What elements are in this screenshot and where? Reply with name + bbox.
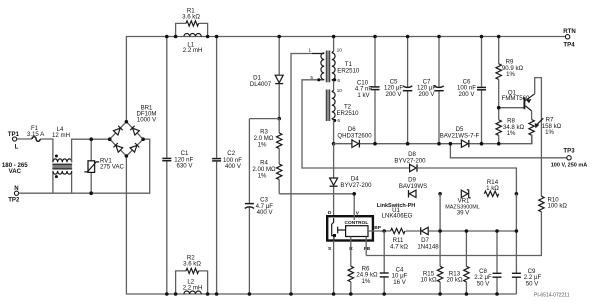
wire choke to bridge left corner — [72, 139, 110, 162]
svg-text:LNK406EG: LNK406EG — [382, 213, 413, 220]
svg-text:1%: 1% — [507, 130, 516, 137]
svg-text:FB: FB — [364, 246, 371, 252]
resistor R9 — [496, 35, 524, 108]
svg-text:1000 V: 1000 V — [137, 117, 157, 124]
wire D1 junction to C3 — [249, 118, 279, 120]
svg-text:TP2: TP2 — [8, 196, 20, 203]
svg-text:10 kΩ: 10 kΩ — [420, 277, 437, 284]
svg-text:BYV27-200: BYV27-200 — [394, 157, 426, 164]
inductor L1 — [183, 33, 203, 54]
resistor R11 — [390, 228, 408, 250]
svg-text:PI-6514-072211: PI-6514-072211 — [534, 293, 570, 299]
svg-text:630 V: 630 V — [177, 163, 194, 170]
resistor R8 — [496, 108, 525, 146]
op-amp U1 LinkSwitch-PH block — [327, 203, 415, 252]
wire T1 pin6 to T2 pin10 — [333, 81, 335, 91]
resistor R10 — [366, 196, 567, 255]
wire R4 to V pin line — [279, 193, 354, 195]
capacitor C2 — [212, 35, 242, 296]
inductor L2 — [183, 279, 203, 294]
svg-text:200 V: 200 V — [459, 91, 476, 98]
svg-text:3.6 kΩ: 3.6 kΩ — [183, 261, 201, 268]
wire V pin stub — [353, 194, 355, 220]
input voltage label — [2, 162, 28, 175]
capacitor C1 — [162, 35, 193, 296]
capacitor C7 — [417, 35, 444, 146]
svg-text:1 kV: 1 kV — [357, 92, 370, 99]
svg-text:BAV21WS-7-F: BAV21WS-7-F — [440, 132, 480, 139]
capacitor C5 — [384, 35, 412, 146]
svg-text:VR1: VR1 — [458, 197, 470, 204]
common mode choke L4 — [52, 126, 72, 178]
svg-text:D: D — [328, 210, 332, 216]
wire T1 pin10 to top rail — [333, 37, 335, 52]
svg-text:50 V: 50 V — [526, 280, 539, 287]
svg-text:5: 5 — [310, 75, 313, 81]
svg-text:20 kΩ: 20 kΩ — [446, 277, 463, 284]
svg-text:400 V: 400 V — [225, 163, 242, 170]
resistor R13 — [446, 229, 469, 296]
svg-text:100 kΩ: 100 kΩ — [548, 203, 568, 210]
wire BP line — [368, 230, 516, 232]
svg-text:100 V, 250 mA: 100 V, 250 mA — [551, 162, 588, 168]
svg-text:ER2510: ER2510 — [336, 110, 359, 117]
svg-text:ER2510: ER2510 — [337, 67, 360, 74]
capacitor C8 — [474, 229, 501, 296]
wire T2 pin6 to drain node — [333, 120, 335, 144]
wire L line TP1 to choke — [17, 139, 53, 162]
wire R pin stub — [350, 237, 352, 267]
svg-text:FMMT560: FMMT560 — [502, 95, 530, 102]
svg-text:RTN: RTN — [563, 28, 576, 35]
diode D8 — [394, 151, 426, 172]
resistor R6 — [348, 265, 378, 296]
transformer T1 — [308, 48, 360, 84]
svg-text:1%: 1% — [258, 142, 267, 149]
wire drain column D4 to U1 — [333, 144, 335, 217]
inductor T2 — [326, 88, 359, 124]
wire secondary bus — [334, 135, 567, 158]
capacitor C6 — [457, 35, 486, 146]
diode D1 — [250, 35, 283, 121]
bridge rectifier BR1 — [108, 105, 157, 158]
svg-text:1N4148: 1N4148 — [417, 243, 439, 250]
capacitor C10 — [355, 35, 380, 146]
test point TP1 — [8, 131, 20, 150]
svg-text:1%: 1% — [362, 278, 371, 285]
wire S pin to bottom rail — [333, 241, 335, 295]
resistor R14 — [484, 179, 518, 197]
resistor R3 — [254, 119, 282, 164]
svg-text:1%: 1% — [545, 129, 554, 136]
wire N line TP2 to bridge — [19, 139, 150, 193]
svg-text:1 kΩ: 1 kΩ — [486, 185, 499, 192]
svg-text:3.15 A: 3.15 A — [27, 131, 45, 138]
wire D8 line to R14 node — [417, 168, 516, 194]
fuse F1 — [27, 125, 45, 141]
capacitor C3 — [245, 119, 274, 296]
svg-text:1%: 1% — [258, 173, 267, 180]
svg-text:10: 10 — [337, 48, 343, 54]
wire top rail RTN bus — [126, 37, 565, 122]
capacitor C9 — [512, 194, 542, 294]
wire bottom rail — [126, 156, 516, 294]
svg-text:50 V: 50 V — [477, 280, 490, 287]
svg-text:TP3: TP3 — [563, 147, 575, 154]
svg-text:L: L — [15, 143, 19, 150]
diode D5 — [440, 126, 480, 147]
resistor R4 — [252, 160, 281, 194]
varistor RV1 — [84, 137, 124, 195]
resistor R1 — [174, 8, 210, 39]
wire T1 pin5 to D8 line — [302, 80, 410, 168]
svg-text:BYV27-200: BYV27-200 — [340, 182, 372, 189]
svg-text:6: 6 — [337, 78, 340, 84]
svg-text:10: 10 — [337, 88, 343, 94]
svg-text:39 V: 39 V — [457, 210, 470, 217]
zener VR1 — [445, 190, 479, 217]
test point TP3 — [551, 147, 588, 168]
svg-text:275 VAC: 275 VAC — [100, 164, 125, 171]
svg-text:400 V: 400 V — [257, 209, 274, 216]
svg-text:6: 6 — [337, 118, 340, 124]
svg-text:DL4007: DL4007 — [250, 81, 272, 88]
diode D9 — [399, 177, 427, 198]
resistor R7 — [529, 117, 562, 144]
diode D6 — [337, 126, 372, 147]
svg-text:2.2 mH: 2.2 mH — [183, 47, 203, 54]
svg-text:N: N — [14, 185, 18, 192]
diode D7 — [417, 227, 439, 250]
test point TP2 — [8, 185, 20, 204]
svg-text:BP: BP — [374, 225, 381, 231]
svg-text:CONTROL: CONTROL — [345, 220, 369, 226]
svg-text:4.7 kΩ: 4.7 kΩ — [390, 243, 408, 250]
svg-text:1: 1 — [308, 48, 311, 54]
svg-text:VAC: VAC — [9, 168, 22, 175]
svg-text:1%: 1% — [506, 71, 515, 78]
resistor R2 — [174, 254, 210, 296]
diode D4 — [330, 176, 373, 189]
wire T1 pin1 to bottom rail — [291, 54, 312, 295]
transistor Q1 — [497, 78, 542, 197]
svg-text:200 V: 200 V — [419, 91, 436, 98]
junction D9 VR1 node — [438, 192, 442, 196]
svg-text:16 V: 16 V — [393, 279, 406, 286]
svg-text:2.2 mH: 2.2 mH — [183, 285, 203, 292]
svg-text:TP4: TP4 — [563, 41, 575, 48]
test point TP4 — [563, 28, 576, 48]
svg-text:BAV19WS: BAV19WS — [399, 183, 427, 190]
capacitor C4 — [380, 231, 408, 296]
resistor R15 — [420, 194, 442, 296]
junction TP3 drop — [449, 142, 453, 146]
svg-text:200 V: 200 V — [386, 91, 403, 98]
svg-text:QHD3T2600: QHD3T2600 — [337, 133, 372, 140]
wire FB pin to R10 — [365, 237, 367, 256]
svg-text:12 mH: 12 mH — [52, 132, 70, 139]
svg-text:TP1: TP1 — [8, 131, 20, 138]
